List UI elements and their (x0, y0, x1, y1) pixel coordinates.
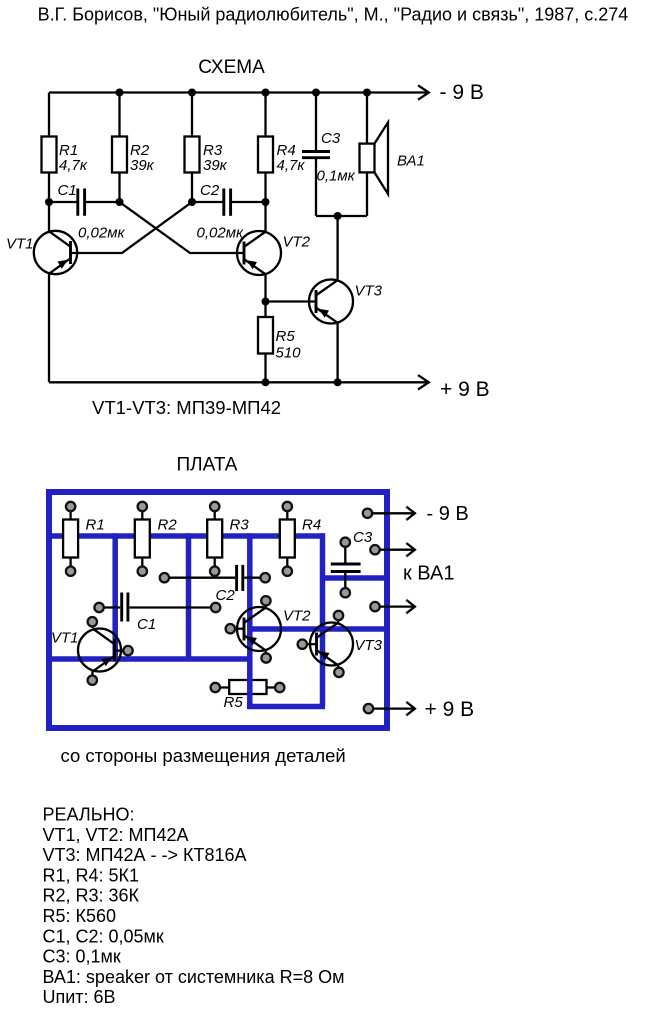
svg-text:VT1: VT1 (51, 630, 79, 647)
pcb resistor R3 (207, 507, 249, 572)
svg-text:ПЛАТА: ПЛАТА (177, 455, 238, 476)
pad VT3 emitter (334, 668, 343, 677)
pcb pads (66, 502, 380, 714)
pad terminal -9V (363, 509, 372, 518)
wire C3 column bottom (315, 159, 317, 216)
svg-text:ВА1: ВА1 (397, 153, 425, 170)
capacitor C3 (302, 130, 356, 185)
node rail BA1 (363, 89, 371, 97)
trace top horizontal bus (46, 533, 325, 539)
arrow terminal -9V (373, 507, 415, 520)
pcb resistor R5 body (220, 680, 275, 711)
pcb capacitor C3 (331, 542, 361, 593)
svg-text:R3: R3 (230, 517, 250, 534)
arrow terminal BA1 a (380, 543, 415, 556)
pad VT1 emitter (88, 676, 97, 685)
pcb resistor R1 (63, 507, 105, 572)
trace horizontal E (323, 575, 391, 581)
svg-text:510: 510 (276, 345, 302, 362)
trace horizontal C (247, 704, 325, 710)
wire cross diagonal R2 to VT2 base (120, 202, 245, 253)
arrow terminal BA1 b (380, 600, 415, 613)
pad R1 bottom (66, 567, 75, 576)
resistor R5 (258, 317, 301, 362)
pad R4 bottom (283, 567, 292, 576)
svg-text:C2: C2 (216, 587, 236, 604)
trace vertical V1 (112, 533, 118, 659)
pad VT2 emitter (261, 653, 270, 662)
wire +9V bottom rail (49, 381, 427, 383)
wire BA1 bottom (366, 172, 368, 216)
trace horizontal B (46, 656, 253, 662)
node rail R2 (116, 89, 124, 97)
wire cross diagonal R3 to VT1 base (71, 202, 193, 253)
pad terminal BA1 b (370, 602, 379, 611)
wire C3/BA1 bottom link (316, 215, 367, 217)
wire C1 right (86, 201, 120, 203)
wire C2 left (192, 201, 223, 203)
pcb capacitor C2 (164, 565, 265, 591)
pad VT2 base (226, 624, 235, 633)
wire BA1 top (366, 93, 368, 144)
resistor R2 (112, 137, 155, 175)
pcb transistor VT1 (78, 622, 124, 681)
svg-text:- 9 В: - 9 В (440, 81, 484, 104)
svg-text:R1: R1 (86, 517, 105, 534)
node R5 rail (262, 378, 270, 386)
svg-text:0,02мк: 0,02мк (78, 225, 125, 242)
transistor VT2 (237, 231, 281, 275)
trace horizontal D (250, 626, 390, 632)
node rail C3 (312, 89, 320, 97)
pad R3 top (210, 502, 219, 511)
svg-text:39к: 39к (130, 157, 155, 174)
svg-text:39к: 39к (203, 157, 228, 174)
svg-text:VT3: VT3 (355, 283, 383, 300)
svg-text:C2: C2 (200, 182, 220, 199)
pad C2 left (160, 573, 169, 582)
svg-text:0,02мк: 0,02мк (197, 225, 244, 242)
svg-text:C1: C1 (137, 616, 156, 633)
capacitor C2 (197, 182, 244, 242)
pad C3 top (341, 538, 350, 547)
svg-text:+ 9 В: + 9 В (425, 698, 475, 721)
board outline (49, 492, 387, 728)
pad C3 bottom (341, 588, 350, 597)
wire R3 column (191, 93, 193, 137)
svg-text:R4: R4 (302, 517, 321, 534)
svg-text:С3: 0,1мк: С3: 0,1мк (43, 947, 121, 967)
-9V rail arrowhead (418, 85, 429, 99)
svg-text:со стороны размещения деталей: со стороны размещения деталей (61, 745, 346, 766)
pad R2 bottom (138, 567, 147, 576)
wire C1 left (49, 201, 77, 203)
svg-text:4,7к: 4,7к (59, 157, 88, 174)
wire C3 column top (315, 93, 317, 151)
pcb resistor R4 (280, 507, 321, 572)
pad C1 left (94, 603, 103, 612)
svg-text:R5: К560: R5: К560 (43, 906, 117, 926)
pad R1 top (66, 502, 75, 511)
svg-text:VT3: МП42А - -> КТ816А: VT3: МП42А - -> КТ816А (43, 845, 247, 865)
pad VT1 base (123, 646, 132, 655)
capacitor C1 (58, 182, 126, 242)
resistor R3 (185, 137, 228, 175)
node rail R3 (188, 89, 196, 97)
pad R3 bottom (210, 567, 219, 576)
svg-text:4,7к: 4,7к (277, 157, 306, 174)
pad C2 right (261, 573, 270, 582)
wire C2 right (232, 201, 266, 203)
node VT2 emitter (262, 298, 270, 306)
node VT3 rail (334, 378, 342, 386)
wire -9V top rail (49, 91, 427, 93)
svg-text:R5: R5 (276, 328, 296, 345)
svg-text:VT3: VT3 (355, 637, 383, 654)
pad R4 top (283, 502, 292, 511)
resistor R4 (258, 137, 305, 175)
node C3 bottom (334, 212, 342, 220)
svg-text:0,1мк: 0,1мк (317, 168, 356, 185)
+9V rail arrowhead (418, 375, 429, 389)
transistor VT1 (34, 231, 77, 274)
pad VT3 base (298, 640, 307, 649)
svg-text:Uпит: 6В: Uпит: 6В (43, 987, 116, 1007)
svg-text:VT1: VT1 (6, 236, 34, 253)
node C1 left (45, 198, 53, 206)
node C1 right (116, 198, 124, 206)
pad R2 top (138, 502, 147, 511)
trace vertical V5 (320, 533, 326, 706)
transistor VT3 (309, 280, 353, 324)
svg-text:VT1, VT2: МП42А: VT1, VT2: МП42А (43, 825, 189, 845)
pad terminal BA1 a (370, 545, 379, 554)
svg-text:С1, С2: 0,05мк: С1, С2: 0,05мк (43, 926, 164, 946)
node C2 right (262, 198, 270, 206)
node dots schematic (45, 89, 371, 387)
pad R5 left (211, 683, 220, 692)
trace vertical V2 (186, 533, 192, 659)
svg-text:R2, R3: 36К: R2, R3: 36К (43, 886, 140, 906)
resistor R1 (42, 137, 88, 175)
svg-text:VT2: VT2 (283, 608, 311, 625)
pad terminal +9V (364, 704, 373, 713)
svg-text:В.Г. Борисов, "Юный радиолюбит: В.Г. Борисов, "Юный радиолюбитель", М., … (38, 5, 629, 25)
trace vertical V4 (247, 533, 253, 706)
wire VT3 collector (336, 216, 338, 281)
wire VT2 emitter to node (264, 274, 266, 317)
wire R5 bottom (264, 354, 266, 383)
svg-text:R2: R2 (158, 517, 178, 534)
pad C1 right (211, 603, 220, 612)
svg-text:ВА1: speaker от системника R=8: ВА1: speaker от системника R=8 Ом (43, 967, 345, 987)
wire left column x=49 (48, 93, 50, 137)
svg-text:+ 9 В: + 9 В (440, 378, 490, 401)
pcb transistor VT2 (235, 601, 281, 658)
pad VT3 collector (334, 611, 343, 620)
wire node to VT3 base (266, 300, 317, 302)
wire R2 column (118, 93, 120, 137)
svg-text:R1, R4: 5К1: R1, R4: 5К1 (43, 865, 140, 885)
pcb capacitor C1 (99, 593, 216, 622)
svg-text:C3: C3 (321, 130, 341, 147)
bottom info text block (43, 805, 345, 1008)
speaker BA1 (360, 122, 425, 194)
node C2 left (188, 198, 196, 206)
pcb transistor VT3 (308, 616, 354, 673)
arrow terminal +9V (374, 702, 415, 715)
pad R5 right (275, 683, 284, 692)
svg-text:- 9 В: - 9 В (427, 503, 469, 525)
svg-text:R5: R5 (224, 694, 244, 711)
svg-text:СХЕМА: СХЕМА (198, 57, 265, 78)
svg-text:С3: С3 (353, 529, 373, 546)
svg-text:VT2: VT2 (283, 234, 311, 251)
svg-text:C1: C1 (58, 182, 77, 199)
pcb resistor R2 (135, 507, 178, 572)
svg-text:РЕАЛЬНО:: РЕАЛЬНО: (43, 805, 135, 825)
pad VT1 collector (88, 617, 97, 626)
PCB copper traces (blue) (46, 533, 390, 706)
pad VT2 collector (261, 596, 270, 605)
wire VT3 emitter down (336, 323, 338, 383)
wire R4 column (264, 93, 266, 137)
node rail R4 (262, 89, 270, 97)
svg-text:VT1-VT3: МП39-МП42: VT1-VT3: МП39-МП42 (92, 397, 281, 418)
svg-text:к ВА1: к ВА1 (403, 563, 454, 585)
